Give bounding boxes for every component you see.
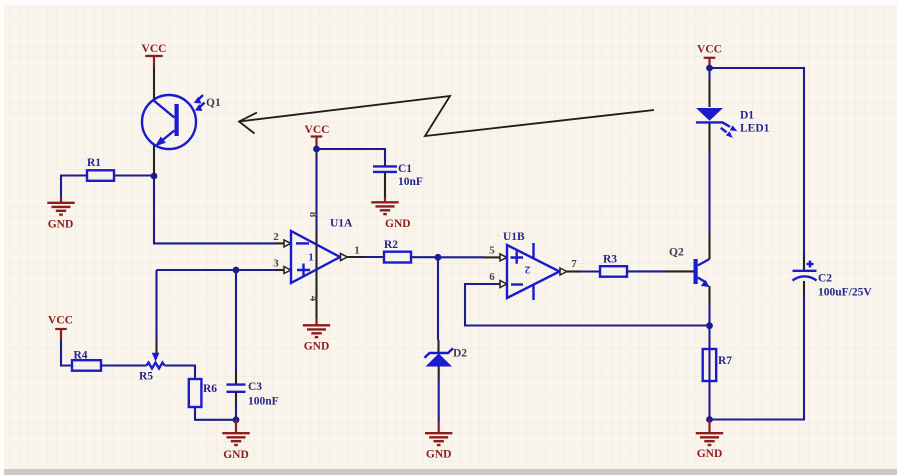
resistor R4 bbox=[61, 340, 147, 371]
svg-text:C1: C1 bbox=[398, 163, 412, 175]
svg-text:R6: R6 bbox=[203, 383, 217, 395]
svg-text:VCC: VCC bbox=[305, 124, 330, 136]
svg-text:3: 3 bbox=[273, 258, 279, 270]
wire Q1 emitter down to node A bbox=[153, 145, 155, 176]
transistor Q1 (photo) bbox=[142, 95, 221, 149]
junction VCC node bbox=[313, 146, 320, 153]
wire node B to U1A pin3 bbox=[157, 269, 277, 271]
resistor R7 bbox=[703, 349, 733, 381]
svg-text:5: 5 bbox=[489, 245, 495, 257]
svg-text:C3: C3 bbox=[248, 381, 262, 393]
svg-text:2: 2 bbox=[524, 263, 530, 275]
op-amp U1B bbox=[503, 231, 560, 300]
svg-text:VCC: VCC bbox=[697, 44, 722, 56]
node F junction (gnd rail) bbox=[706, 416, 713, 423]
power symbol VCC (top-right) bbox=[697, 44, 722, 69]
power symbol VCC (top-left) bbox=[142, 43, 167, 67]
svg-text:R5: R5 bbox=[139, 371, 153, 383]
svg-text:1: 1 bbox=[308, 252, 314, 264]
wire R5 to R6 bbox=[165, 366, 196, 380]
svg-text:100nF: 100nF bbox=[248, 396, 279, 408]
svg-text:R2: R2 bbox=[384, 239, 398, 251]
svg-text:LED1: LED1 bbox=[740, 123, 770, 135]
ground GND (left of R1) bbox=[47, 198, 74, 231]
light arrow annotation bbox=[239, 96, 654, 136]
svg-text:C2: C2 bbox=[818, 273, 832, 285]
ground GND (under C3/R6) bbox=[222, 420, 249, 461]
diode D2 (zener) bbox=[425, 348, 468, 423]
resistor R5 (trimmer) bbox=[139, 353, 165, 383]
svg-text:GND: GND bbox=[223, 449, 249, 461]
svg-text:D1: D1 bbox=[740, 110, 754, 122]
svg-text:10nF: 10nF bbox=[398, 176, 423, 188]
U1B output pin 7 bbox=[560, 268, 567, 275]
wire VCC to D1 bbox=[708, 68, 710, 79]
node G junction (C3 gnd) bbox=[233, 416, 240, 423]
wire U1B pin6 feedback bbox=[465, 284, 710, 326]
power symbol VCC (bottom-left) bbox=[48, 315, 73, 340]
U1A output pin 1 bbox=[341, 253, 348, 260]
diode D1 (LED) bbox=[696, 108, 770, 138]
wire pin3 node down to R5 wiper bbox=[155, 270, 157, 341]
svg-text:7: 7 bbox=[571, 258, 577, 270]
svg-text:6: 6 bbox=[489, 271, 495, 283]
svg-text:8: 8 bbox=[307, 212, 319, 218]
node B junction bbox=[233, 267, 240, 274]
svg-text:GND: GND bbox=[426, 449, 452, 461]
svg-text:GND: GND bbox=[697, 448, 723, 460]
wire node C to U1B pin5 bbox=[438, 256, 484, 258]
wire VCC to Q1 collector bbox=[153, 67, 155, 100]
svg-text:R1: R1 bbox=[87, 157, 101, 169]
wire Q2 emitter down bbox=[708, 286, 710, 305]
resistor R2 bbox=[384, 239, 438, 263]
svg-text:Q1: Q1 bbox=[206, 97, 221, 109]
svg-text:D2: D2 bbox=[453, 348, 467, 360]
ground GND (under R7) bbox=[696, 420, 723, 461]
capacitor C2 bbox=[710, 68, 873, 420]
resistor R3 bbox=[600, 254, 694, 277]
svg-text:GND: GND bbox=[304, 341, 330, 353]
op-amp U1A bbox=[291, 149, 353, 325]
svg-text:R7: R7 bbox=[718, 355, 732, 367]
transistor Q2 bbox=[669, 247, 710, 288]
svg-text:VCC: VCC bbox=[142, 43, 167, 55]
svg-text:VCC: VCC bbox=[48, 315, 73, 327]
svg-text:1: 1 bbox=[354, 245, 360, 257]
resistor R1 bbox=[61, 157, 154, 198]
wire node A to U1A pin2 bbox=[154, 176, 276, 243]
svg-text:Q2: Q2 bbox=[669, 247, 684, 259]
svg-text:2: 2 bbox=[273, 231, 279, 243]
ground GND (under D2) bbox=[425, 422, 452, 461]
node A junction bbox=[151, 173, 158, 180]
node E junction (emitter/feedback) bbox=[706, 322, 713, 329]
wire U1A out to R2 bbox=[365, 256, 384, 258]
ground GND (U1A pin4) bbox=[303, 325, 330, 352]
svg-text:U1A: U1A bbox=[330, 218, 353, 230]
capacitor C1 bbox=[317, 149, 423, 197]
node C junction bbox=[435, 254, 442, 261]
resistor R6 bbox=[189, 379, 236, 420]
svg-text:4: 4 bbox=[307, 296, 319, 302]
power symbol VCC (above U1A) bbox=[305, 124, 330, 147]
svg-text:100uF/25V: 100uF/25V bbox=[818, 287, 872, 299]
svg-text:GND: GND bbox=[48, 219, 74, 231]
node D junction bbox=[706, 65, 713, 72]
wire node C down to D2 bbox=[437, 257, 439, 340]
svg-text:U1B: U1B bbox=[503, 231, 525, 243]
ground GND (under C1) bbox=[371, 197, 410, 230]
svg-text:R3: R3 bbox=[603, 254, 617, 266]
svg-text:GND: GND bbox=[385, 218, 411, 230]
wire Q2 collector up to D1 bbox=[708, 123, 710, 155]
capacitor C3 bbox=[227, 270, 279, 420]
